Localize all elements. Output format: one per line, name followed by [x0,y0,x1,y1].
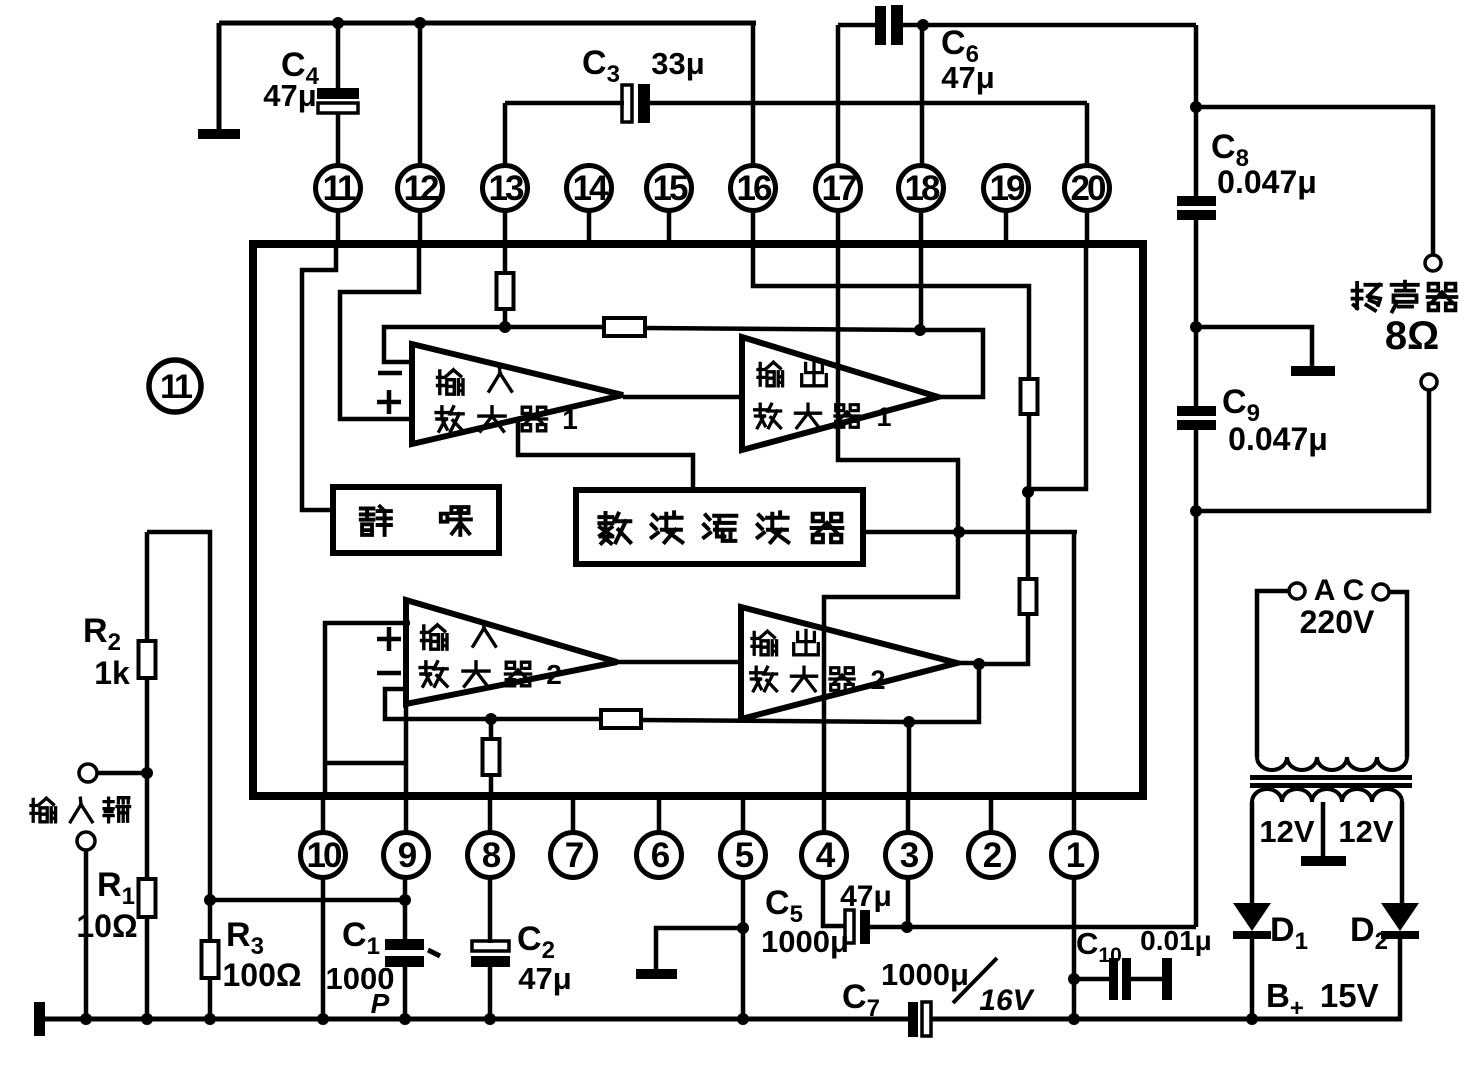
node speaker return [1190,505,1202,517]
pin 13 [483,166,528,247]
pin 15 [647,166,692,247]
node amp2 output [973,658,985,670]
capacitor C8 [1177,196,1216,408]
capacitor C10 [1074,958,1172,1000]
svg-text:19: 19 [990,169,1025,208]
wire pin 11 to mute block [302,246,336,510]
node pin20 / bias resistors [1022,486,1034,498]
wire C5 node to speaker return riser [907,925,1196,930]
wire pin 10 to rail [321,878,326,1019]
wire pin 3 riser [907,722,912,797]
wire ground tap [1196,327,1312,368]
wire input lower to rail [84,850,89,1019]
pin 6 [637,795,682,878]
label speaker (yang sheng qi) [1353,283,1381,311]
resistor R1 [139,879,156,1019]
wire pin 1 to rail [1072,878,1077,1019]
wire filter output [863,530,1077,535]
capacitor C6 [838,5,1196,166]
wire pin 18 riser [920,25,925,166]
resistor pin13 feedback (vertical) [497,246,514,327]
node R3 / rail [204,1013,216,1025]
svg-text:220V: 220V [1300,604,1375,640]
svg-text:17: 17 [822,169,856,208]
wire amp1 - input to feedback [384,327,505,362]
svg-text:1: 1 [562,404,578,435]
wire input terminal to R divider [97,771,147,776]
speaker terminal - [1421,374,1437,390]
pin 4 [802,795,847,878]
svg-text:2: 2 [983,836,1002,875]
wire pin 10 / amp2 + input loop [325,623,410,797]
wire R2 parallel loop [147,532,210,900]
ground (top-left) [198,129,240,139]
node C5 / pin 3 [901,921,913,933]
op-amp input amplifier 2 [406,600,617,704]
pin 16 [731,166,776,247]
wire speaker return riser [1194,511,1199,927]
label input terminal (shu ru duan) [31,798,56,822]
pin 2 [969,795,1014,878]
wire pin 5 down to rail [741,878,746,1019]
node C2 / rail [484,1013,496,1025]
pin 5 [721,795,766,878]
svg-text:15: 15 [653,169,688,208]
svg-text:12V: 12V [1259,814,1314,849]
node C8/C9 ground tap [1190,321,1202,333]
node top rail / C4 [332,17,344,29]
wire to speaker + terminal [1196,107,1433,255]
svg-text:9: 9 [398,836,417,875]
ground (right) [1291,366,1335,376]
node D1 / rail [1246,1013,1258,1025]
resistor R3 [202,900,219,1019]
slash C7 value [953,958,997,1003]
wire ground branch ch2 [656,928,743,971]
svg-text:1000μ: 1000μ [761,924,849,959]
pin 7 [551,795,596,878]
resistor feedback ch1 (horizontal) [505,318,920,336]
wire amp2 output node down to feedback [909,664,979,722]
resistor pin8 feedback (vertical) [483,719,500,797]
svg-text:0.01μ: 0.01μ [1140,925,1212,956]
wire top supply rail [219,21,756,26]
svg-text:33μ: 33μ [651,46,704,81]
svg-text:1: 1 [1066,836,1085,875]
plus sign amp2 [377,627,401,651]
svg-text:14: 14 [573,169,609,208]
wire amp2 output to node [957,661,979,666]
wire supply riser right [1194,25,1199,198]
op-amp output amplifier 2 [741,607,957,719]
wire pin 4 to C5 [823,878,846,926]
wire amp1 to ripple filter input [518,421,693,490]
diode D2 [1381,903,1419,1021]
pin 14 [567,166,612,247]
node feedback / pin 18 [914,324,926,336]
svg-text:100Ω: 100Ω [222,957,301,993]
svg-text:A C: A C [1314,574,1365,607]
wire pin 3 down [906,878,911,927]
capacitor C9 [1177,406,1216,511]
pin 8 [468,795,513,878]
wire pin 20 into IC [1028,246,1086,489]
wire pin 18 into IC [919,246,924,330]
svg-text:7: 7 [565,836,583,875]
wire to speaker - terminal [1196,390,1429,511]
node pin 5 / ground branch [737,922,749,934]
AC terminal left [1289,583,1305,599]
AC terminal right [1373,584,1389,600]
node speaker top [1190,101,1202,113]
wire pin 16 into IC [753,246,1029,379]
input terminal lower [77,832,95,850]
capacitor C7 (in rail) [908,1002,931,1037]
svg-text:2: 2 [546,659,562,690]
ground (bottom middle) [636,969,677,979]
diode D1 [1233,903,1271,1019]
transformer primary [1257,591,1407,770]
wire pin 12 riser [418,23,423,166]
pin 3 [886,795,931,878]
svg-text:16: 16 [737,169,772,208]
pin 10 [301,795,346,878]
transformer secondary [1252,789,1402,905]
minus sign amp2 [377,671,401,676]
input terminal upper [79,764,97,782]
wire pin 9 down [403,878,408,941]
svg-text:8: 8 [482,836,501,875]
capacitor C4 [317,23,359,166]
wire node down to bias resistor 2 [1026,492,1031,579]
svg-text:3: 3 [900,836,919,875]
svg-text:0.047μ: 0.047μ [1217,164,1317,200]
pin 1 [1052,795,1097,878]
polarity mark C1 [428,950,440,956]
node top rail / pin 12 wire [414,17,426,29]
svg-text:1000μ: 1000μ [881,957,969,992]
wire bottom ground rail [38,1017,910,1022]
svg-text:6: 6 [651,836,670,875]
svg-text:20: 20 [1071,169,1106,208]
ground (center tap) [1301,856,1346,866]
node feedback2 / pin8 resistor [485,713,497,725]
capacitor C1 [385,939,424,1019]
op-amp input amplifier 1 [412,344,623,444]
transformer core [1250,775,1412,780]
capacitor C5 [845,910,907,944]
op-amp output amplifier 1 [742,337,938,450]
wire filter output to pin 1 [1072,532,1077,797]
svg-text:13: 13 [489,169,524,208]
wire resistor to node [1027,414,1032,492]
node pin 1 / rail [1068,1013,1080,1025]
node C6 / pin 18 wire [917,19,929,31]
svg-text:8Ω: 8Ω [1385,314,1439,358]
svg-text:18: 18 [905,169,940,208]
svg-text:47μ: 47μ [840,880,892,913]
resistor bias ch1 (vertical) [1021,379,1038,414]
resistor bias ch2 (vertical) [1020,579,1037,614]
node feedback2 / pin 3 [903,716,915,728]
block ripple filter (shu bo lv bo qi) [576,490,863,564]
svg-text:1k: 1k [94,655,130,691]
resistor feedback ch2 (horizontal) [491,710,909,728]
IC package box [253,244,1143,796]
capacitor C3 [505,84,1087,166]
wire amp1 to output amp1 [623,395,742,400]
node C1 / rail [399,1013,411,1025]
wire amp2 to output amp2 [617,660,741,665]
node R3 top / line to pin 9 [204,894,216,906]
node input lower / rail [80,1013,92,1025]
svg-text:11: 11 [160,368,192,406]
svg-text:10Ω: 10Ω [76,908,137,944]
node feedback / pin13 resistor [499,321,511,333]
wire pin 17 into IC to filter node [838,246,958,532]
svg-text:12V: 12V [1338,814,1393,849]
svg-text:P: P [371,988,390,1019]
pin 19 [984,166,1029,247]
svg-text:47μ: 47μ [518,961,571,996]
svg-text:0.047μ: 0.047μ [1228,421,1328,457]
plus sign amp1 [377,390,401,414]
pin 9 [384,795,429,878]
terminal cap left end of rail [34,1002,45,1036]
pin 17 [816,166,861,247]
wire pin 9 riser to amp2 [404,704,409,797]
wire bottom rail right of C7 [930,1017,1402,1022]
wire pin 16 riser from top rail [751,23,756,166]
block mute (jing zao) [333,487,499,553]
speaker terminal + [1425,255,1441,271]
node pin 10 / rail [317,1013,329,1025]
svg-text:16V: 16V [979,984,1035,1017]
node R1 / rail [141,1013,153,1025]
svg-text:5: 5 [735,836,754,875]
resistor R2 [139,532,156,879]
minus sign amp1 [378,371,402,376]
pin 20 [1065,166,1110,247]
node R2/R1 input tap [141,767,153,779]
node pin 1 / C10 [1068,973,1080,985]
svg-text:47μ: 47μ [263,78,316,113]
wire amp2 + loop bottom [325,761,406,766]
pin 12 [398,166,443,247]
capacitor C2 [471,878,510,1019]
wire feedback to amp1 output [920,330,983,397]
wire R3 node to pin 9 [210,898,404,903]
svg-text:11: 11 [323,169,357,208]
svg-text:10: 10 [307,836,342,875]
node filter output / pin17 / pin4 branch [953,526,965,538]
figure number marker 11 [149,360,201,412]
svg-text:12: 12 [404,169,439,208]
wire center tap [1321,802,1326,858]
wire bias resistor 2 to amp2 output [979,614,1028,664]
svg-text:2: 2 [870,665,885,695]
wire filter node down to pin4 loop [824,532,958,797]
svg-text:1: 1 [876,402,891,432]
node pin 5 / rail [737,1013,749,1025]
pin 18 [899,166,944,247]
svg-text:47μ: 47μ [941,60,994,95]
wire pin 12 to amp1 + input [340,246,419,419]
node pin 9 / R3 line [399,894,411,906]
pin 11 [316,166,361,247]
wire ground drop top-left [217,23,222,132]
wire amp2 - input to feedback [385,689,491,719]
